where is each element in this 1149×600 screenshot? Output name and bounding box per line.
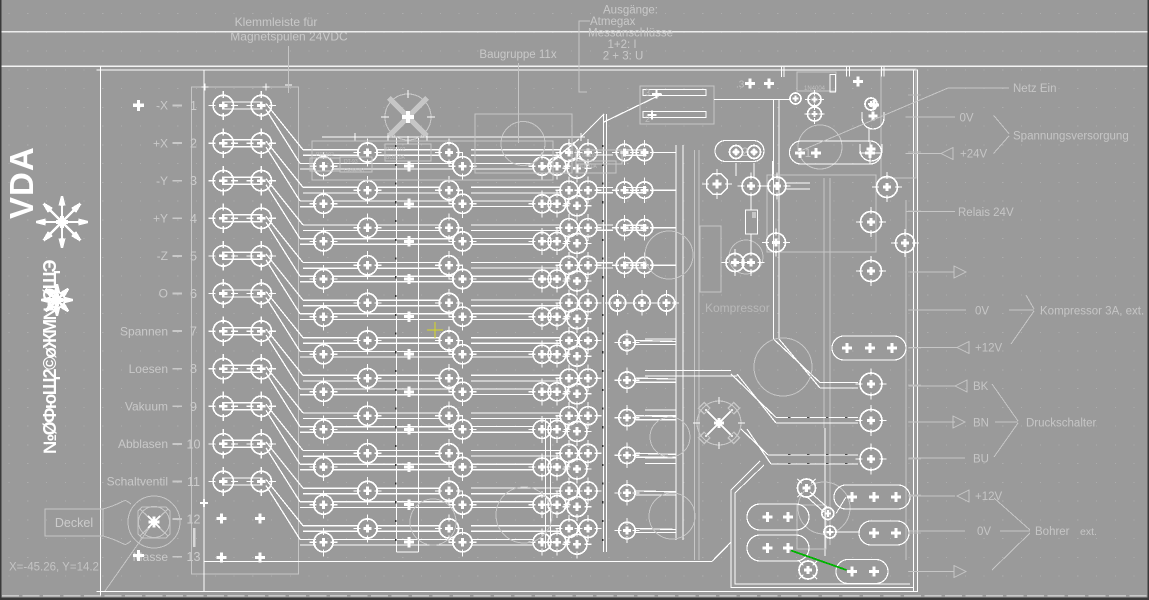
svg-text:Kompressor 3A, ext.: Kompressor 3A, ext.: [1040, 306, 1144, 318]
gray circle k5: [649, 493, 695, 539]
deckel leader outline: [103, 501, 131, 545]
bracket druckschalter: [992, 384, 1018, 421]
dash row 6: [173, 293, 183, 295]
leader netz ein: [798, 88, 1009, 152]
svg-text:ext.: ext.: [1080, 526, 1097, 538]
bus dark ticks: [396, 145, 603, 541]
wire stadium2 verticals: [735, 163, 737, 176]
pad r2: [861, 212, 882, 233]
svg-text:11: 11: [187, 475, 200, 489]
svg-text:Spannen: Spannen: [120, 324, 168, 338]
top rail line 2: [0, 65, 1149, 67]
stadium 2pad y572: [836, 560, 888, 584]
wire terminal 11 to unit 11: [266, 480, 303, 540]
label +24V: [906, 153, 941, 155]
unit 5 via: [404, 311, 414, 321]
terminal strip outline: [192, 87, 299, 574]
terminal X11 dumbbell pads: [209, 467, 276, 496]
svg-text:+12V: +12V: [975, 491, 1003, 503]
bracket bohrer: [1000, 530, 1030, 532]
svg-text:Messanschlüsse: Messanschlüsse: [588, 28, 673, 40]
unit 4 via: [404, 274, 414, 284]
strip top ticks: [202, 84, 209, 91]
unit 6 left pads and wires: [300, 326, 453, 368]
slot pads: [652, 90, 661, 99]
dash row 8: [173, 368, 183, 370]
component outline top middle: [312, 141, 553, 180]
bohrer compartment outline: [731, 461, 913, 588]
wire bend marker: [200, 499, 208, 507]
dash row 2: [173, 142, 183, 144]
dash row 1: [173, 105, 183, 107]
unit 2 left pads and wires: [300, 176, 453, 218]
svg-text:O: O: [159, 287, 168, 301]
unit 8 left pads and wires: [300, 402, 453, 444]
unit 1 middle pads: [435, 138, 602, 182]
terminal X2 dumbbell pads: [209, 128, 276, 157]
bottom dark bar: [0, 598, 1149, 600]
unit 3 middle pads: [435, 214, 602, 258]
unit 10 right pads: [614, 480, 676, 505]
unit 8 right pads: [614, 405, 676, 430]
label 0V kompressor: [909, 309, 966, 311]
svg-text:Druckschalter: Druckschalter: [1026, 418, 1096, 430]
pads pair x751 x777: [742, 177, 760, 195]
gray circle k2: [729, 240, 763, 274]
terminal X3 dumbbell pads: [209, 166, 276, 195]
pad x776: [767, 233, 786, 252]
svg-text:7: 7: [190, 325, 197, 339]
dash row 7: [173, 330, 183, 332]
label +12V b: [909, 495, 955, 497]
svg-text:X=-45.26, Y=14.2: X=-45.26, Y=14.2: [9, 562, 99, 574]
pad r5: [860, 373, 882, 395]
svg-text:Klemmleiste für: Klemmleiste für: [235, 15, 318, 29]
bus wires x=397/418: [396, 137, 398, 552]
leader baugruppe: [518, 63, 520, 143]
green airwire: [791, 551, 847, 571]
unit 7 right pads: [614, 367, 676, 392]
svg-text:1: 1: [805, 148, 811, 160]
U pad a: [862, 112, 884, 129]
wire chain to relay pad y=385: [774, 339, 821, 383]
diode 1N4004 outline: [797, 72, 836, 91]
gray outline bohrer small: [797, 505, 826, 549]
unit 7 middle pads: [435, 364, 602, 408]
dash row 11: [173, 481, 183, 483]
board inner right edge wire: [913, 70, 915, 592]
deckel label box: [45, 509, 103, 536]
bus wires x=603/607: [602, 114, 604, 552]
octagon pad: [707, 174, 727, 194]
circle pad x871: [865, 98, 877, 110]
wire E to G doubles: [596, 149, 613, 151]
mount hole middle right: [697, 401, 741, 445]
svg-text:BU: BU: [973, 454, 989, 466]
top rail line 1: [0, 31, 1149, 33]
component outline big top: [475, 114, 572, 173]
unit 11 via: [404, 537, 414, 547]
bracket spannungsversorgung: [994, 115, 1010, 134]
unit 1 right pads: [612, 140, 676, 165]
wire terminal 2 to unit 2: [266, 141, 303, 201]
svg-text:Atmegax: Atmegax: [590, 16, 636, 28]
svg-text:6: 6: [190, 287, 197, 301]
bus wires x=773/779: [773, 100, 775, 339]
pad r6: [860, 410, 882, 432]
svg-text:1: 1: [190, 99, 197, 113]
svg-text:3: 3: [645, 88, 650, 98]
wire stub y=373: [645, 370, 731, 372]
terminal X7 dumbbell pads: [209, 316, 276, 345]
gray circle k1: [645, 231, 693, 279]
terminal X9 dumbbell pads: [209, 392, 276, 421]
svg-text:2: 2: [190, 137, 197, 151]
pad r4: [861, 261, 882, 282]
svg-text:BUZ10A: BUZ10A: [578, 164, 598, 170]
window dark left border: [0, 0, 2, 600]
wire stub y=412: [645, 409, 676, 411]
wire terminal 7 to unit 7: [266, 329, 303, 389]
dash row 4: [173, 217, 183, 219]
svg-text:9: 9: [190, 400, 197, 414]
component outline left pair: [310, 158, 340, 171]
pin row 3 pads: [745, 79, 755, 89]
unit 6 right pads: [614, 330, 676, 355]
terminal X1 dumbbell pads: [209, 91, 276, 120]
unit 9 via: [404, 462, 414, 472]
svg-text:+Y: +Y: [153, 212, 168, 226]
svg-text:VDA: VDA: [3, 146, 40, 219]
svg-text:Baugruppe 11x: Baugruppe 11x: [479, 49, 556, 61]
bus wires x=824/830: [823, 178, 825, 428]
label BK: [909, 385, 955, 387]
component circle top: [501, 122, 545, 166]
right connector outline: [881, 69, 916, 178]
wire pads to right: [786, 182, 810, 184]
dash row 3: [173, 180, 183, 182]
row 12 tick: [193, 528, 196, 547]
terminal row 13 pads: [217, 553, 227, 563]
unit 3 left pads and wires: [300, 214, 453, 256]
unit 4 middle pads: [435, 251, 602, 295]
diode pads: [790, 93, 801, 104]
svg-text:-Z: -Z: [157, 249, 168, 263]
xpad a: [798, 479, 816, 497]
svg-text:10: 10: [187, 437, 201, 451]
svg-text:-X: -X: [156, 99, 168, 113]
svg-text:4: 4: [190, 212, 197, 226]
gray circle k3: [754, 338, 812, 396]
wire terminal 1 to unit 1: [266, 104, 303, 164]
resistor R relay: [750, 195, 752, 210]
unit 11 middle pads: [435, 514, 602, 558]
wire stubs top edge: [781, 66, 783, 77]
component outline mid right: [576, 150, 622, 164]
left stadium pair 2: [747, 535, 809, 561]
unit 4 left pads and wires: [300, 251, 453, 293]
svg-text:Ausgänge:: Ausgänge:: [603, 5, 658, 17]
unit 10 middle pads: [435, 477, 602, 521]
component outline small B: [340, 157, 372, 172]
deckel pad rings: [128, 496, 180, 548]
svg-text:Deckel: Deckel: [55, 516, 93, 530]
wire bohrer pads link: [836, 497, 846, 514]
cross pad x874: [869, 100, 879, 110]
unit 9 right pads: [614, 443, 676, 468]
wire stadium1 up: [868, 127, 870, 142]
unit 10 via: [404, 499, 414, 509]
svg-text:3: 3: [190, 174, 197, 188]
board section bottom edge: [204, 561, 712, 563]
unit 8 middle pads: [435, 402, 602, 446]
wire stub y=340: [645, 338, 676, 340]
mount hole fan top: [385, 94, 431, 140]
arrow y571: [909, 571, 954, 573]
svg-text:Loesen: Loesen: [129, 362, 168, 376]
gray circle k4: [650, 417, 690, 457]
svg-text:13: 13: [187, 550, 201, 564]
unit 11 left pads and wires: [300, 514, 453, 556]
label +12V a: [909, 347, 957, 349]
unit 4 right pads: [612, 253, 676, 278]
stadium connector 2: [715, 141, 764, 162]
board corner tick top-left: [97, 66, 105, 74]
connector slots component: [640, 86, 714, 124]
svg-text:12: 12: [187, 513, 201, 527]
bracket kompressor: [1009, 309, 1034, 311]
terminal X10 dumbbell pads: [209, 429, 276, 458]
board outline: [101, 70, 918, 592]
gray edge line x=906: [905, 200, 907, 560]
svg-text:8: 8: [190, 362, 197, 376]
unit 2 right pads: [612, 177, 676, 202]
bus diagonal to top right: [604, 94, 662, 122]
stadium 2pad y533: [859, 521, 909, 545]
gray circle k7: [410, 499, 456, 545]
wire terminal 3 to unit 3: [266, 179, 303, 239]
svg-text:+24V: +24V: [960, 149, 988, 161]
U pad b: [860, 144, 882, 161]
cursor crosshair: [427, 322, 443, 338]
unit 1 via: [404, 161, 414, 171]
wire terminal 4 to unit 4: [266, 216, 303, 276]
left stadium pair 1: [747, 504, 809, 530]
compass symbol large: [62, 221, 88, 223]
stadium 3pad y497: [834, 485, 910, 509]
unit 5 left pads and wires: [300, 289, 453, 331]
svg-text:0V: 0V: [960, 113, 974, 125]
terminal X5 dumbbell pads: [209, 241, 276, 270]
stadium 3pad y348: [832, 336, 906, 360]
svg-text:Magnetspulen 24VDC: Magnetspulen 24VDC: [230, 30, 348, 44]
unit 7 via: [404, 387, 414, 397]
dash row 12: [173, 518, 183, 520]
svg-text:Relais 24V: Relais 24V: [958, 207, 1014, 219]
svg-text:DT-93: DT-93: [344, 159, 358, 165]
small pads center bohrer: [822, 508, 834, 520]
unit 6 via: [404, 349, 414, 359]
window dark right border: [1147, 0, 1149, 600]
unit 3 via: [404, 236, 414, 246]
wire ticks on y=137: [351, 133, 359, 141]
unit 8 via: [404, 424, 414, 434]
unit 9 left pads and wires: [300, 439, 453, 481]
wire terminal 9 to unit 9: [266, 404, 303, 464]
gray circle k6: [496, 487, 552, 543]
diode band: [830, 75, 836, 93]
wire terminal 10 to unit 10: [266, 442, 303, 502]
pad r3: [896, 234, 915, 253]
terminal strip wire vertical: [203, 70, 205, 592]
svg-text:BN: BN: [973, 418, 989, 430]
svg-text:Bohrer: Bohrer: [1035, 526, 1070, 538]
svg-text:BK: BK: [973, 381, 989, 393]
label 0V bohrer: [909, 530, 965, 532]
svg-text:Netz Ein: Netz Ein: [1013, 83, 1056, 95]
edge ticks: [908, 95, 921, 572]
wire terminal 5 to unit 5: [266, 254, 303, 314]
svg-text:+X: +X: [153, 136, 168, 150]
unit 10 left pads and wires: [300, 477, 453, 519]
wire chain to pad y=458: [741, 429, 768, 455]
gray circle k8: [798, 482, 850, 534]
wire vertical x=825: [824, 428, 826, 556]
leader 0V top: [906, 116, 955, 118]
wire terminal 8 to unit 8: [266, 367, 303, 427]
bus wires x=694/699: [694, 150, 696, 560]
compass symbol small: [57, 299, 73, 301]
bottom dashed scroll line: [2, 595, 1147, 597]
bus bottom join: [397, 551, 419, 553]
unit 7 left pads and wires: [300, 364, 453, 406]
svg-text:.3: .3: [736, 80, 745, 91]
svg-text:PTF102: PTF102: [316, 152, 334, 158]
svg-text:Schaltventil: Schaltventil: [107, 475, 168, 489]
svg-text:2 + 3: U: 2 + 3: U: [603, 51, 644, 63]
deckel pad chamfered square: [138, 507, 170, 538]
label BU: [909, 457, 965, 459]
pad r7: [860, 448, 882, 470]
unit 3 right pads: [612, 215, 676, 240]
svg-text:5: 5: [190, 249, 197, 263]
bus wires x=545/551: [545, 418, 547, 548]
svg-text:-Y: -Y: [156, 174, 168, 188]
pads pair bottom relay: [726, 254, 744, 272]
dash row 13: [173, 556, 183, 558]
svg-text:0V: 0V: [975, 306, 989, 318]
deckel pad X: [140, 509, 168, 536]
wire F1 to y137 diagonal: [547, 139, 579, 166]
svg-text:HR44-48: HR44-48: [344, 168, 364, 174]
unit 6 middle pads: [435, 326, 602, 370]
svg-text:2: 2: [742, 147, 748, 159]
unit 5 right pads: [605, 290, 679, 315]
svg-text:+12V: +12V: [975, 343, 1003, 355]
svg-text:BUZ10A: BUZ10A: [386, 155, 406, 161]
board corner tick bottom-left: [97, 588, 105, 596]
svg-text:PTF-102: PTF-102: [386, 147, 406, 153]
dash row 10: [173, 443, 183, 445]
dash row 9: [173, 405, 183, 407]
pad marker left of row 13: [133, 550, 144, 561]
component outline x700: [700, 226, 721, 292]
dash row 5: [173, 255, 183, 257]
cross pad x858: [853, 77, 863, 87]
svg-text:Spannungsversorgung: Spannungsversorgung: [1013, 131, 1129, 143]
bus wires x=676/683: [675, 145, 677, 540]
unit 5 middle pads: [435, 289, 602, 333]
wire chain to pad y=420: [731, 374, 776, 418]
bracket ausgaenge: [579, 21, 590, 92]
wire stub y=460: [645, 457, 676, 459]
svg-text:PTF-102: PTF-102: [578, 153, 598, 159]
unit 1 left pads and wires: [300, 138, 453, 180]
unit 2 via: [404, 199, 414, 209]
terminal X4 dumbbell pads: [209, 204, 276, 233]
deckel leader line: [105, 524, 152, 591]
pad marker left of row 1: [133, 100, 144, 111]
wire dark ticks: [788, 418, 848, 464]
unit 11 right pads: [614, 518, 676, 543]
svg-text:Vakuum: Vakuum: [125, 400, 168, 414]
terminal row 12 pads: [217, 514, 227, 524]
leader klemmleiste: [288, 46, 290, 93]
label Relais 24V: [906, 211, 955, 213]
wire bohrer diag: [806, 496, 824, 512]
svg-text:0V: 0V: [977, 526, 991, 538]
wire terminal 6 to unit 6: [266, 292, 303, 352]
terminal X6 dumbbell pads: [209, 279, 276, 308]
arrow y272: [910, 271, 954, 273]
svg-text:Abblasen: Abblasen: [118, 437, 168, 451]
wire top horizontal y=137: [322, 136, 581, 138]
relay outline: [767, 175, 876, 252]
pad r1: [877, 177, 898, 198]
unit 2 middle pads: [435, 176, 602, 220]
unit 9 middle pads: [435, 439, 602, 483]
terminal X8 dumbbell pads: [209, 354, 276, 383]
stadium connector 1: [790, 141, 882, 164]
svg-text:Kompressor: Kompressor: [705, 301, 770, 315]
label BN: [909, 421, 955, 423]
svg-text:1+2: I: 1+2: I: [607, 39, 636, 51]
xpad b: [799, 561, 817, 579]
relay circle: [798, 125, 842, 169]
component outline small A: [385, 144, 431, 161]
wire horizontal y=99.5: [714, 99, 790, 101]
